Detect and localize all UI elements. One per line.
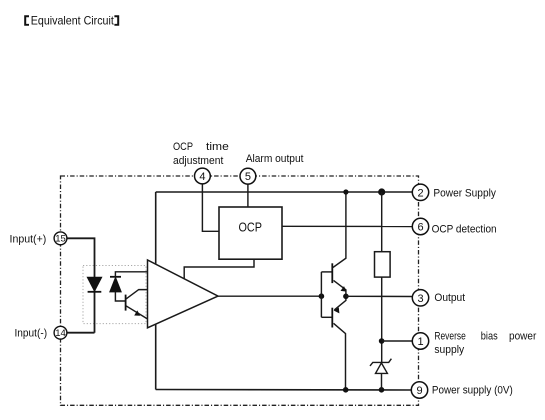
- pin 15: [54, 232, 67, 245]
- transistor Q1 (input): [125, 295, 127, 311]
- node 0V rail zener junction: [379, 387, 385, 393]
- pin 3: [412, 290, 428, 306]
- IC box bottom edge / 0V rail to pin 9: [156, 389, 412, 392]
- title Equivalent Circuit: [24, 15, 29, 25]
- svg-text:Reverse: Reverse: [434, 331, 465, 343]
- svg-text:6: 6: [417, 222, 423, 234]
- wire pin15 to LED anode: [61, 238, 95, 332]
- svg-text:Input(+): Input(+): [10, 233, 47, 245]
- transistor Q3 (PNP lower): [321, 316, 332, 318]
- svg-text:Power Supply: Power Supply: [433, 188, 496, 200]
- photodiode D2: [110, 276, 121, 278]
- OCP block U1: [219, 207, 282, 259]
- svg-text:bias: bias: [481, 331, 498, 343]
- svg-text:15: 15: [55, 234, 66, 245]
- wire photodiode cathode to op-amp: [115, 272, 148, 277]
- wire pin5 to OCP block: [247, 176, 249, 207]
- LED D1: [87, 277, 101, 291]
- node power rail resistor junction: [378, 188, 385, 195]
- pin 6: [412, 218, 428, 234]
- dotted optocoupler boundary: [83, 266, 146, 324]
- op-amp U2: [148, 260, 219, 328]
- svg-text:14: 14: [55, 328, 66, 339]
- node base junction: [319, 293, 325, 299]
- svg-text:OCP detection: OCP detection: [432, 224, 497, 236]
- pin 1: [412, 333, 428, 349]
- node power rail collector junction: [343, 189, 348, 194]
- svg-text:supply: supply: [434, 344, 464, 356]
- svg-text:Power supply (0V): Power supply (0V): [432, 385, 513, 397]
- node 0V rail collector junction: [343, 387, 349, 393]
- wire photodiode anode to transistor base: [115, 292, 125, 301]
- svg-text:adjustment: adjustment: [173, 155, 223, 167]
- node reverse bias junction: [379, 338, 385, 344]
- svg-text:9: 9: [416, 385, 422, 397]
- svg-text:4: 4: [199, 171, 205, 183]
- node output emitter junction: [343, 294, 349, 300]
- IC box top edge / power supply rail to pin 2: [156, 191, 412, 193]
- svg-text:Output: Output: [434, 292, 465, 304]
- wire pin4 to OCP block: [202, 176, 219, 231]
- zener diode ZD1: [370, 359, 391, 366]
- wire OCP block to op-amp: [184, 259, 254, 279]
- pin 5: [240, 168, 256, 184]
- pin 4: [195, 168, 211, 184]
- svg-text:OCP: OCP: [173, 141, 193, 153]
- svg-text:2: 2: [417, 187, 423, 199]
- wire OCP to pin 6 (OCP detection): [282, 225, 412, 227]
- wire power rail to resistor: [381, 192, 383, 252]
- resistor R1: [375, 252, 391, 277]
- pin 2: [412, 184, 428, 200]
- wire resistor to zener: [381, 277, 383, 362]
- svg-text:5: 5: [245, 171, 251, 183]
- pin 14: [54, 326, 67, 339]
- svg-text:time: time: [206, 141, 229, 153]
- svg-text:Alarm output: Alarm output: [246, 153, 304, 165]
- wire base rail: [320, 272, 322, 317]
- IC box left edge: [155, 192, 157, 390]
- wire output to pin 3: [346, 295, 412, 297]
- wire pin14: [61, 332, 95, 334]
- svg-text:power: power: [509, 331, 537, 343]
- dashed IC package boundary: [61, 176, 419, 405]
- wire zener to 0V rail: [381, 373, 383, 389]
- wire op-amp output to base rail: [218, 295, 321, 297]
- wire junction to pin 1: [382, 340, 412, 342]
- svg-text:3: 3: [417, 293, 423, 305]
- svg-text:1: 1: [417, 336, 423, 348]
- pin 9: [411, 382, 427, 398]
- transistor Q2 (NPN upper): [321, 271, 332, 273]
- svg-text:OCP: OCP: [239, 220, 263, 235]
- svg-text:Equivalent Circuit: Equivalent Circuit: [31, 13, 115, 27]
- svg-text:Input(-): Input(-): [15, 328, 48, 340]
